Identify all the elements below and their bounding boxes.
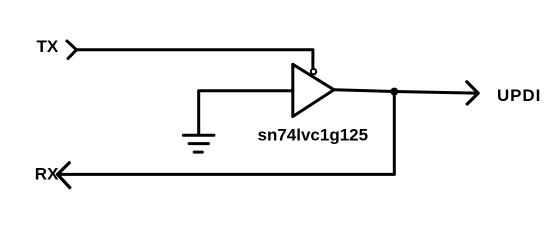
UPDI arrowhead — [467, 82, 478, 104]
svg-text:sn74lvc1g125: sn74lvc1g125 — [258, 126, 369, 145]
ground bar 3 — [194, 151, 202, 154]
junction node — [390, 88, 398, 96]
RX arrowhead — [58, 163, 70, 188]
wire ground to input — [199, 89, 293, 92]
wire junction down — [393, 92, 396, 175]
svg-text:RX: RX — [35, 165, 59, 184]
buffer U1 triangle — [293, 64, 334, 116]
wire TX to enable pin — [77, 50, 313, 69]
ground bar 2 — [189, 142, 208, 145]
wire bottom to RX — [58, 173, 395, 176]
TX connector chevron — [67, 41, 77, 59]
ground stem — [197, 91, 200, 135]
svg-text:TX: TX — [37, 37, 59, 56]
ground bar 1 — [183, 134, 214, 137]
wire output to UPDI arrow — [334, 90, 476, 93]
enable bubble — [311, 69, 316, 74]
svg-text:UPDI: UPDI — [497, 86, 541, 105]
